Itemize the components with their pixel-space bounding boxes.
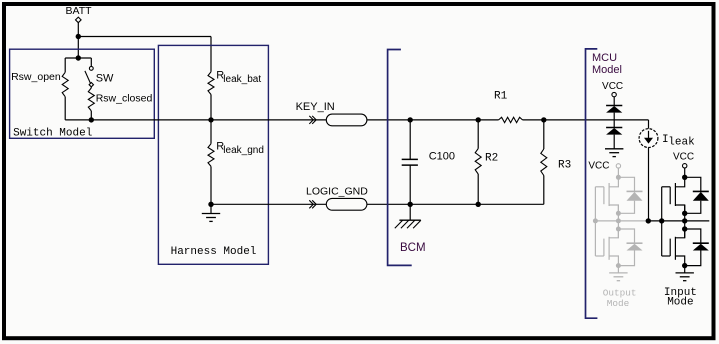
junction dot KEY_IN harness [208,117,213,122]
wire input trunk [684,205,686,238]
svg-text:R2: R2 [485,153,498,165]
wire to Ileak [648,120,650,129]
wire D2 to ground [613,135,615,149]
junction dot LOGIC_GND harness [208,202,213,207]
wire Rsw_open bottom [64,97,66,120]
junction dot switch bottom [89,117,94,122]
resistor R1 [494,90,523,122]
svg-text:Model: Model [592,64,622,76]
diode D2 clamp to GND [606,128,622,135]
wire KEY_IN line left [65,119,326,121]
wire input gate bus [661,187,663,256]
svg-text:leak: leak [668,136,695,148]
diode input PMOS body [685,177,701,191]
resistor R2 [475,149,498,174]
ground BCM earth [395,220,421,228]
svg-text:Rsw_open: Rsw_open [11,71,61,83]
svg-text:leak_gnd: leak_gnd [223,145,264,156]
svg-text:Rsw_closed: Rsw_closed [96,92,153,104]
svg-text:LOGIC_GND: LOGIC_GND [306,186,368,198]
wire output gate bus [594,187,596,256]
svg-text:BCM: BCM [400,242,426,254]
svg-text:R1: R1 [494,90,508,102]
net LOGIC_GND [306,186,368,211]
svg-text:leak_bat: leak_bat [223,74,261,85]
wire R3 bottom [543,176,545,205]
wire Rsw_closed bottom [90,111,92,120]
wire C100 bottom [409,165,411,204]
junction dots output (gray) [593,175,621,268]
switch SW [85,67,114,87]
junction dots input [646,175,688,269]
wire C100 top [409,120,411,159]
diode D1 clamp to VCC [606,106,622,113]
wire input node line [648,220,709,222]
junction dot R3 top [541,117,546,122]
svg-text:MCU: MCU [592,52,617,64]
svg-text:VCC: VCC [673,152,694,163]
svg-text:C100: C100 [429,151,455,163]
wire to harness ground [210,204,212,213]
wire KEY_IN line mid [367,119,499,121]
wire SW to Rsw_closed [90,87,92,88]
wire top horizontal BATT to harness [78,36,211,38]
wire to Rsw_open top [64,58,66,72]
ground harness [202,214,220,222]
junction dot C100 top [408,117,413,122]
transistor output PMOS [609,177,618,187]
resistor R3 [541,149,571,176]
diode output NMOS body [618,229,634,243]
svg-text:BATT: BATT [66,5,93,17]
svg-text:KEY_IN: KEY_IN [296,101,335,113]
diode input NMOS body [685,229,701,243]
resistor Rsw_closed [88,88,152,111]
power VCC MCU [602,81,623,97]
transistor input PMOS [675,177,684,187]
wire Rleak_gnd to gnd junction [210,166,212,204]
svg-text:Harness Model: Harness Model [171,246,257,258]
svg-text:VCC: VCC [602,81,623,92]
diode output PMOS body [618,177,634,191]
Switch Model box [10,49,155,139]
junction dot C100 bottom [408,202,413,207]
wire R2 bottom [477,174,479,204]
label Input Mode [664,287,697,309]
transistor output NMOS [609,229,618,238]
junction dot R2 bottom [476,202,481,207]
wire to output ground [617,266,619,273]
wire to BCM earth ground [409,204,411,220]
wire to input ground [684,266,686,273]
wire VCC to D1 [613,97,615,106]
svg-text:VCC: VCC [588,160,609,171]
ground MCU [605,149,623,157]
wire down into harness Rleak_bat [210,37,212,72]
wire output node line [595,220,648,222]
MCU bracket [586,49,622,318]
wire VCC to dot [684,168,686,177]
wire VCC to source dot [617,168,619,177]
label Output Mode [603,287,637,309]
wire to SW top [90,58,92,67]
wire BATT junction to switch [77,37,79,59]
net KEY_IN [296,101,367,126]
wire output trunk [617,205,619,238]
transistor input NMOS [675,229,684,238]
capacitor C100 [402,151,455,166]
wire junction to Rleak_gnd [210,120,212,144]
svg-text:Mode: Mode [667,296,693,308]
current source Ileak [639,129,695,149]
resistor Rleak_bat [208,69,261,94]
wire R1 right [523,119,649,121]
node BATT terminal [66,5,93,23]
BCM bracket [388,50,426,266]
wire LOGIC_GND line left [211,203,326,205]
wire R3 top [543,120,545,149]
ground input [676,272,694,274]
wire BATT down to junction [77,23,79,37]
svg-text:Switch Model: Switch Model [13,127,92,139]
svg-text:Mode: Mode [607,298,630,309]
wire LOGIC_GND line mid [367,203,544,205]
power VCC input [673,152,694,169]
Harness Model box [158,45,268,264]
svg-text:SW: SW [96,72,114,84]
wire Ileak to node [648,148,650,221]
wire Rleak_bat to junction [210,95,212,120]
resistor Rleak_gnd [208,141,264,167]
junction dot R2 top [476,117,481,122]
wire switch top horizontal [65,57,91,59]
svg-text:Output: Output [603,287,637,298]
wire D1 to node through D2 [613,113,615,128]
svg-text:R3: R3 [558,160,571,172]
resistor Rsw_open [11,71,68,97]
ground output [609,272,627,274]
junction dot BATT [76,34,81,39]
junction dot switch top [76,55,81,60]
wire R2 top [477,120,479,149]
power VCC output [616,164,620,168]
